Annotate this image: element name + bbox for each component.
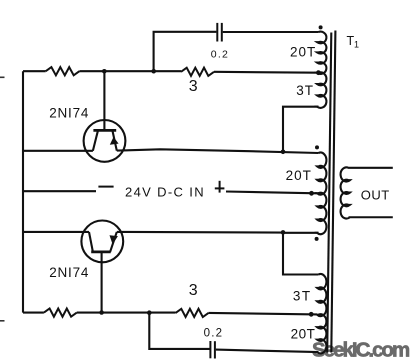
svg-text:20T: 20T bbox=[291, 327, 316, 342]
svg-text:20T: 20T bbox=[290, 45, 316, 60]
svg-text:2NI74: 2NI74 bbox=[49, 106, 89, 121]
svg-text:OUT: OUT bbox=[361, 188, 390, 203]
svg-text:24V D-C IN: 24V D-C IN bbox=[125, 184, 205, 199]
svg-text:3T: 3T bbox=[293, 288, 312, 303]
svg-text:0.2: 0.2 bbox=[204, 328, 224, 340]
svg-text:1: 1 bbox=[354, 40, 359, 50]
svg-text:3: 3 bbox=[189, 78, 198, 95]
svg-text:3: 3 bbox=[189, 282, 198, 299]
svg-text:3T: 3T bbox=[296, 83, 314, 98]
svg-text:20T: 20T bbox=[286, 168, 312, 183]
svg-text:0.2: 0.2 bbox=[211, 48, 229, 60]
svg-text:2NI74: 2NI74 bbox=[49, 265, 89, 280]
